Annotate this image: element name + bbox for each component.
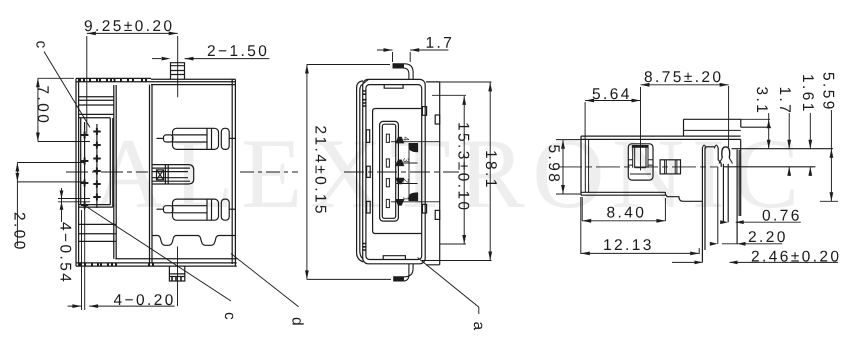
centerline right view — [558, 166, 718, 168]
pins side view — [81, 122, 101, 210]
dim text 7.00 — [38, 86, 49, 122]
bottom notch — [383, 256, 405, 260]
shell bottom inner line — [115, 258, 237, 260]
bottom mounting tab — [169, 266, 184, 281]
pin column 1 — [84, 122, 86, 210]
plate top line — [732, 148, 833, 150]
body outline — [581, 135, 741, 137]
step down bottom — [665, 192, 667, 196]
raised rear tab — [684, 119, 741, 136]
center ground piece — [152, 165, 194, 184]
plastic/shell divider — [114, 85, 116, 259]
right rear flange line — [426, 82, 440, 265]
housing horizontal lines lower — [79, 224, 116, 241]
dim text 1.61 — [803, 75, 814, 110]
housing outer verticals — [76, 78, 79, 266]
dim text 21.4±0.15 — [315, 126, 326, 213]
dim 9.25 — [87, 32, 178, 34]
pin exit line — [723, 166, 815, 168]
dim text 2.46±0.20 — [752, 251, 839, 262]
top notch — [384, 85, 403, 89]
pin box — [81, 118, 113, 207]
right wall dimple wedges — [409, 144, 418, 201]
dim 4-0.20 — [68, 305, 175, 307]
dim 2-1.50 leaders — [185, 58, 270, 60]
contact box — [628, 144, 653, 180]
dim text 5.98 — [549, 145, 560, 181]
dim text 4-0.20 — [114, 294, 173, 305]
right wall dimples outside — [422, 107, 426, 116]
tongue inner — [382, 124, 395, 218]
inner shell rect — [366, 85, 422, 260]
contact cutout bottom — [157, 199, 237, 220]
dim text 2-1.50 — [208, 45, 266, 56]
dim 2.20 — [722, 243, 782, 245]
leader c bottom — [85, 206, 231, 302]
housing top band — [76, 78, 236, 81]
left flange pair — [357, 81, 364, 262]
left wall knurl ticks — [363, 91, 366, 106]
corner slash — [364, 80, 369, 84]
housing horizontal lines upper — [79, 97, 114, 118]
dim 5.59 — [830, 110, 832, 201]
bottom foot — [393, 264, 413, 281]
dim 2.46 — [672, 261, 838, 263]
dim 21.4 — [306, 65, 308, 280]
shell right wall — [232, 79, 235, 266]
dim 5.64 — [585, 100, 640, 102]
dim text 8.40 — [607, 207, 643, 218]
dim text 5.59 — [823, 73, 834, 109]
centerline left view — [66, 171, 298, 173]
shell top double line — [151, 79, 235, 84]
leader d — [231, 254, 299, 307]
dim text 12.13 — [604, 239, 651, 250]
label d — [292, 318, 303, 325]
label a — [474, 322, 483, 330]
dim 0.76 — [736, 221, 742, 223]
dim 7.00 — [37, 78, 39, 141]
outer shell rect — [363, 79, 426, 263]
crimp piece — [660, 160, 680, 174]
watermark — [94, 141, 794, 208]
dim 5.98 — [562, 140, 564, 194]
shell castellated bottom line — [152, 236, 235, 246]
dim 1.7 top — [377, 49, 448, 51]
dim 1.61 — [809, 113, 811, 149]
top mounting tab — [171, 63, 185, 79]
shell left wall — [150, 85, 153, 263]
dim text 1.7 top — [427, 37, 451, 48]
contact bumps right of tongue — [363, 91, 427, 250]
dim 8.75 — [641, 84, 729, 86]
cavity — [373, 109, 422, 234]
dim 8.40 — [582, 220, 665, 222]
dim text 5.64 — [593, 88, 629, 99]
dim text 8.75±.20 — [645, 71, 721, 82]
top peg — [393, 64, 414, 80]
dim 18.1 — [489, 82, 491, 260]
dim text 0.76 — [763, 210, 799, 221]
dim 2.00 — [16, 163, 18, 247]
label c bottom — [225, 313, 234, 320]
rear contact cup — [702, 148, 705, 263]
dim text 2.20 — [749, 231, 785, 242]
pin column 2 — [96, 124, 98, 208]
bottom band — [76, 263, 237, 266]
tongue outer — [380, 121, 399, 221]
dim 15.3 — [463, 96, 465, 244]
hatch ticks bottom band — [80, 263, 153, 266]
dim text 15.3±0.10 — [458, 123, 469, 209]
dim text 1.7 right — [780, 88, 791, 112]
dim 12.13 — [581, 252, 699, 254]
dim 3.1 — [768, 113, 770, 149]
leader c top — [44, 52, 90, 128]
inner left wall — [585, 139, 588, 192]
label c top — [36, 41, 45, 48]
dim 1.7 right — [788, 113, 790, 149]
rear plate / pin2 — [737, 139, 741, 243]
dim text 9.25±0.20 — [85, 20, 172, 31]
contact cutout top — [157, 128, 237, 149]
centerline middle view — [344, 171, 459, 173]
dim text 2.00 — [14, 213, 25, 249]
hatch ticks top band — [80, 79, 146, 82]
dim 4-0.54 — [61, 188, 63, 222]
left wall dimples — [366, 130, 369, 143]
bent pin tulip — [722, 147, 730, 158]
dim text 18.1 — [486, 151, 497, 186]
leader a — [418, 258, 479, 315]
contact windows on tongue — [386, 134, 389, 142]
dim text 3.1 — [757, 87, 768, 112]
pin number digits + leaders — [391, 142, 440, 202]
dim text 4-0.54 — [60, 222, 71, 281]
